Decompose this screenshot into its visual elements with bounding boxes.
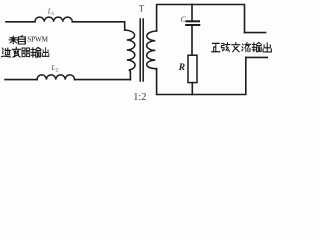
inductor L2: [37, 75, 75, 80]
wire: output loop bottom: [157, 57, 246, 94]
svg-text:SPWM: SPWM: [27, 35, 48, 43]
wire: top wire from L1 to transformer primary: [72, 22, 124, 30]
transformer primary winding: [125, 30, 135, 72]
svg-text:C: C: [180, 14, 186, 24]
wire: top-left input lead: [6, 21, 35, 23]
wire: capacitor top lead: [191, 5, 193, 21]
capacitor C plates: [187, 20, 200, 22]
wire: resistor bottom lead: [191, 83, 193, 95]
text: 来自SPWM: [9, 36, 18, 44]
svg-text:1:2: 1:2: [133, 92, 146, 103]
transformer secondary winding: [147, 31, 157, 70]
text: 逆变器输出: [1, 48, 10, 57]
transformer core: [140, 19, 143, 81]
wire: capacitor to resistor: [191, 26, 193, 55]
wire: primary bottom lead: [129, 72, 131, 80]
wire: bottom wire from primary to L2: [75, 79, 131, 81]
resistor R body: [188, 55, 197, 82]
inductor L1: [35, 17, 72, 22]
svg-text:R: R: [178, 63, 185, 73]
text: 正弦交流输出: [212, 43, 220, 51]
wire: output loop top: [157, 5, 245, 33]
svg-text:T: T: [139, 3, 145, 13]
wire: output terminal stub top: [245, 32, 266, 34]
wire: bottom-left input lead: [5, 79, 37, 81]
wire: output terminal stub bottom: [246, 56, 267, 58]
